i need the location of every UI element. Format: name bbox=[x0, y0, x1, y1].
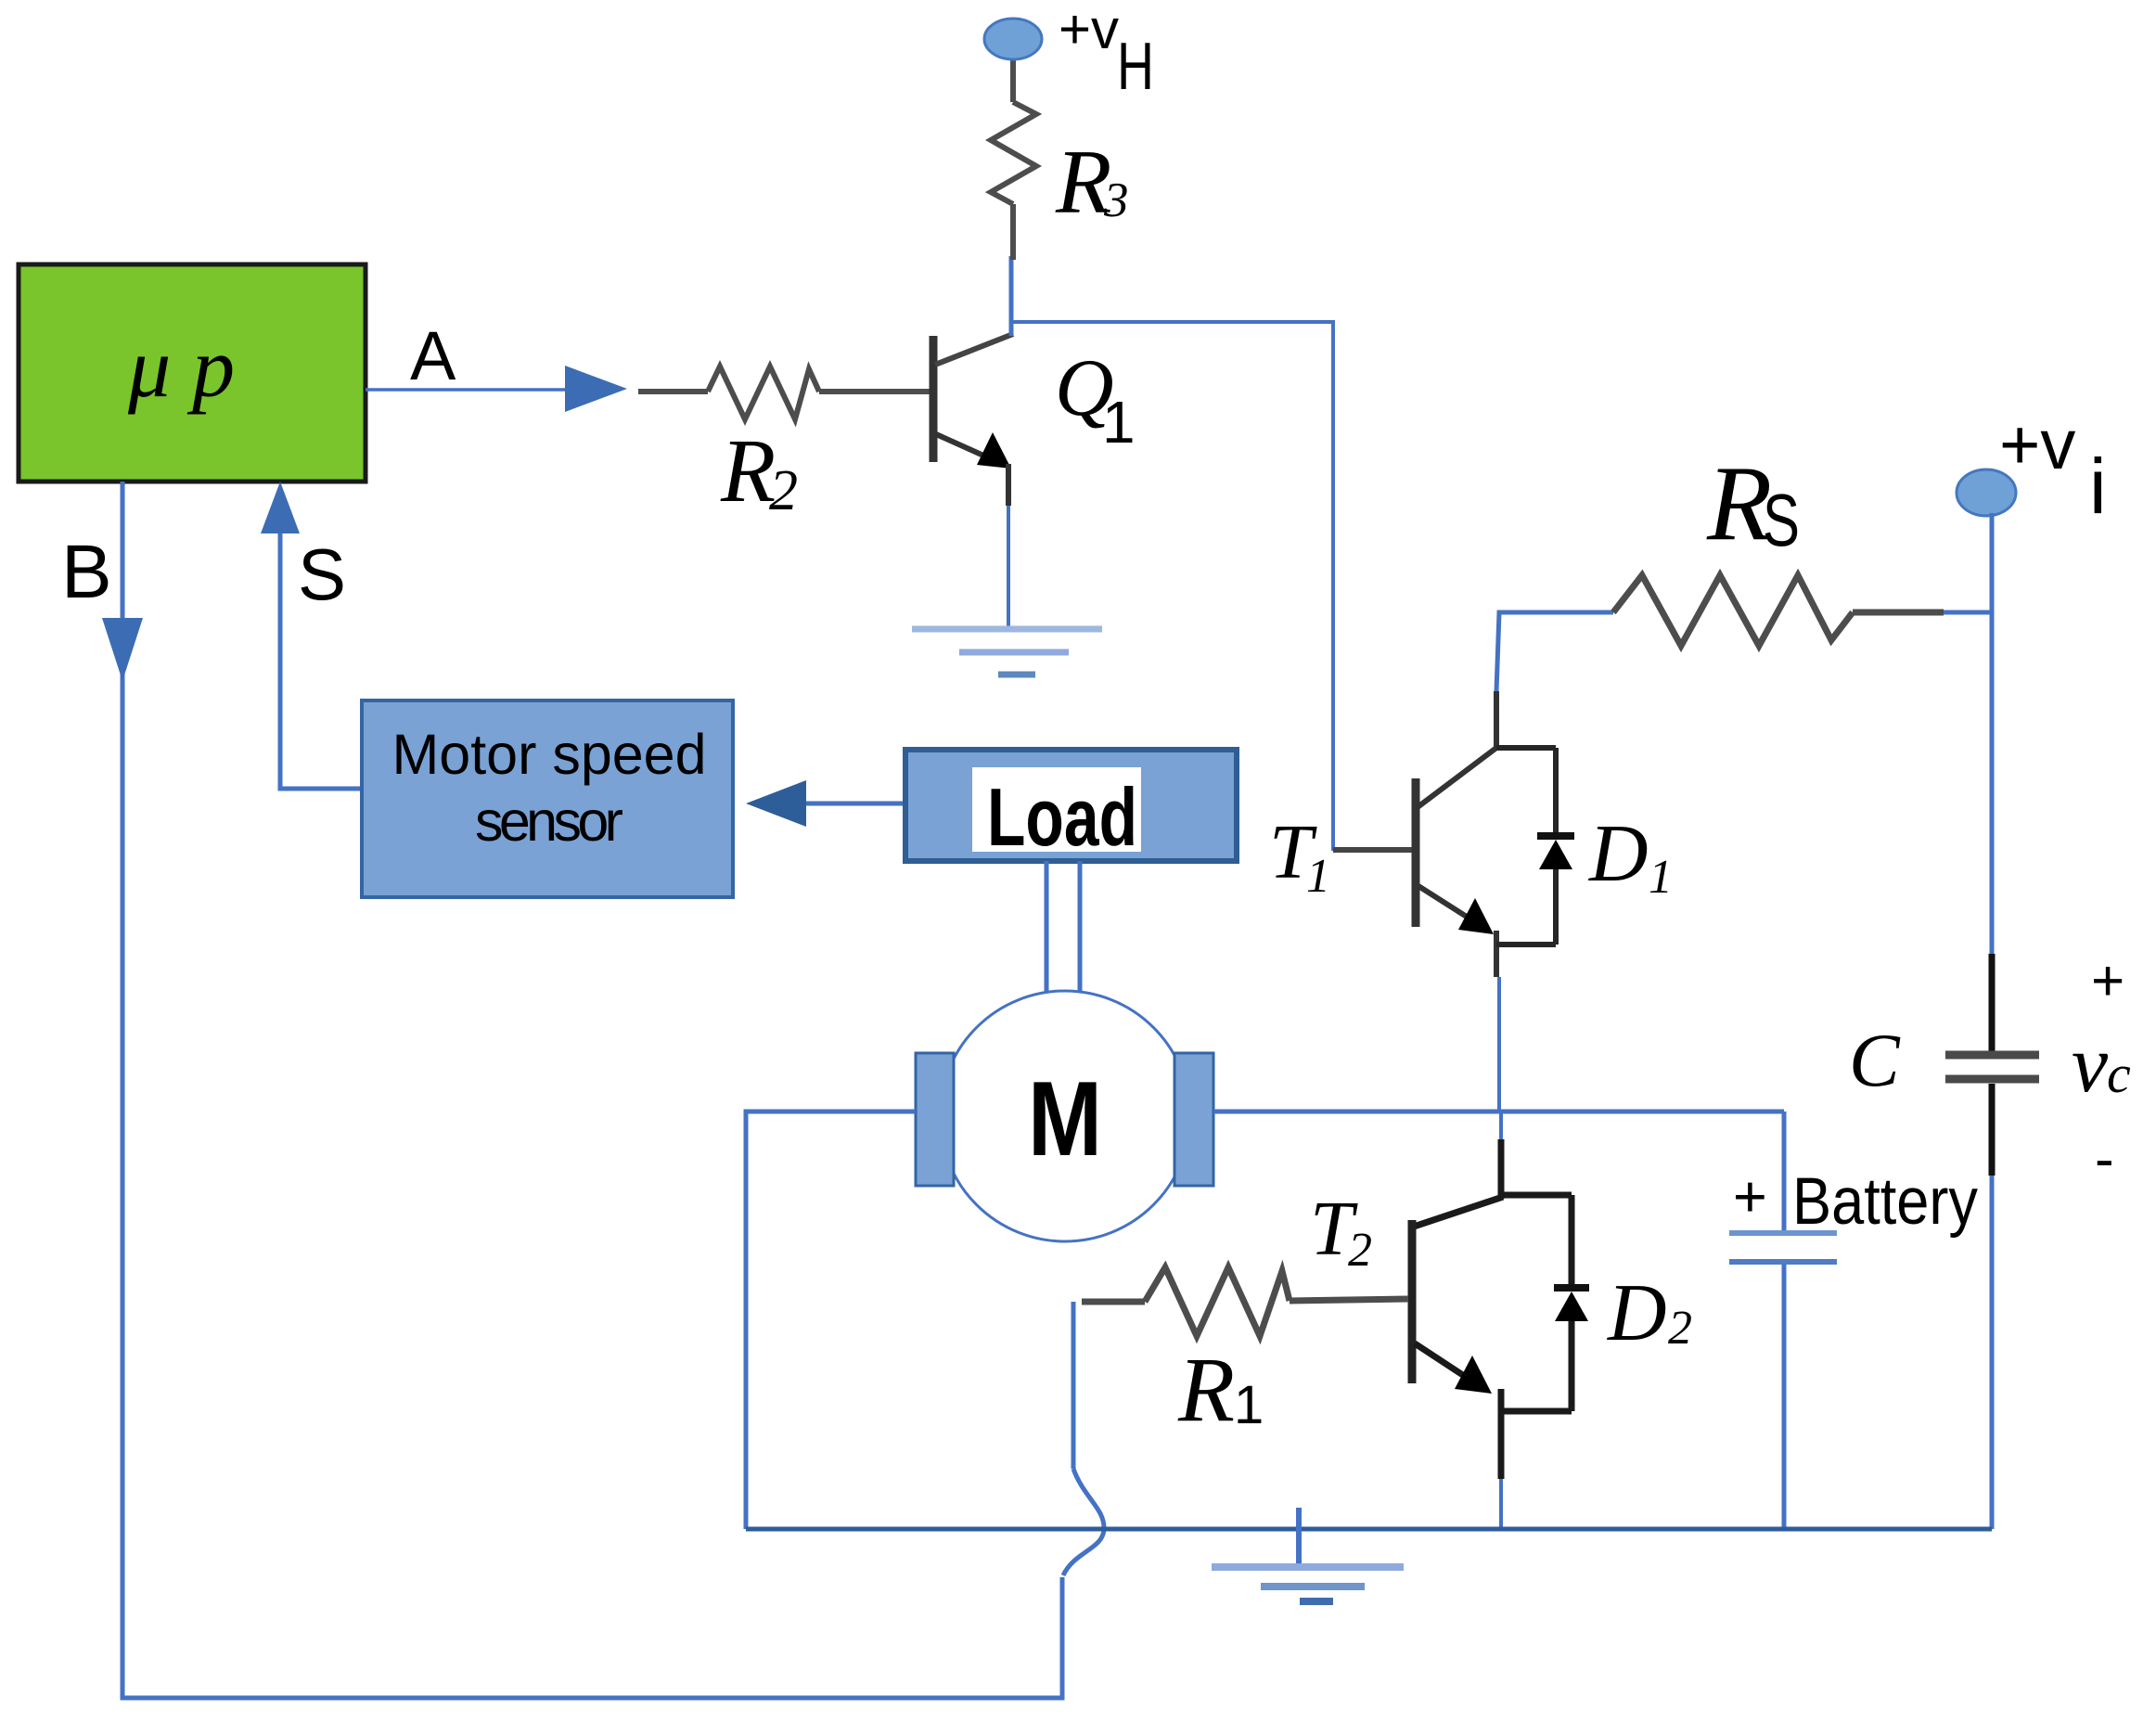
svg-text:D: D bbox=[1607, 1268, 1667, 1358]
svg-text:2: 2 bbox=[1668, 1302, 1692, 1355]
wire R1 to B wire (crossing hop) bbox=[1063, 1302, 1104, 1575]
svg-text:i: i bbox=[2089, 443, 2107, 530]
ground (bottom) bbox=[1212, 1567, 1404, 1601]
box motor speed sensor bbox=[362, 700, 733, 897]
label R3 bbox=[1055, 132, 1129, 233]
wire Q1 collector to R3 bbox=[1009, 256, 1014, 336]
transistor Q1 bbox=[933, 334, 1013, 506]
svg-text:μ p: μ p bbox=[127, 320, 235, 415]
svg-text:+: + bbox=[1733, 1164, 1767, 1229]
label Q1 bbox=[1055, 343, 1136, 456]
svg-text:A: A bbox=[410, 317, 456, 394]
arrowhead B bbox=[102, 618, 143, 681]
svg-text:Battery: Battery bbox=[1792, 1165, 1978, 1239]
wire T1 emitter down to motor bus bbox=[1497, 977, 1501, 1112]
svg-text:S: S bbox=[1763, 479, 1800, 561]
wire capacitor to bottom bus bbox=[1990, 1176, 1995, 1529]
svg-text:sensor: sensor bbox=[475, 790, 623, 853]
wire T1 collector to RS bbox=[1496, 612, 1613, 691]
ground (Q1 emitter) bbox=[912, 629, 1102, 675]
motor M bbox=[940, 991, 1190, 1241]
resistor R3 bbox=[991, 58, 1036, 260]
wire motor right to battery bbox=[1213, 1110, 1784, 1114]
svg-text:C: C bbox=[1849, 1018, 1901, 1102]
wire Q1 collector to T1 base bbox=[1011, 322, 1333, 851]
box Load bbox=[905, 750, 1237, 863]
resistor RS bbox=[1613, 575, 1944, 646]
label T1 bbox=[1269, 809, 1330, 903]
svg-text:v: v bbox=[2072, 1020, 2109, 1110]
svg-text:1: 1 bbox=[1234, 1375, 1264, 1435]
wire bus to bottom ground bbox=[1296, 1508, 1302, 1567]
wire motor left to bottom bus bbox=[746, 1112, 916, 1529]
svg-text:R: R bbox=[720, 421, 776, 520]
resistor R2 bbox=[638, 366, 931, 419]
battery BT1 bbox=[1729, 1233, 1837, 1262]
label RS bbox=[1706, 444, 1800, 562]
diode D2 bbox=[1501, 1195, 1589, 1411]
svg-text:3: 3 bbox=[1103, 173, 1129, 227]
svg-text:M: M bbox=[1028, 1060, 1102, 1178]
wire RS to +vi node bbox=[1944, 610, 1992, 615]
svg-text:S: S bbox=[298, 533, 346, 615]
label T2 bbox=[1310, 1186, 1372, 1277]
supply node +vi bbox=[1957, 469, 2016, 516]
wire S (sensor to μp) bbox=[280, 520, 362, 789]
arrow Load to sensor bbox=[746, 780, 904, 827]
wire Q1 emitter to ground bbox=[1007, 506, 1010, 629]
wire motor bus down to battery + bbox=[1782, 1112, 1787, 1230]
label +vi bbox=[1999, 405, 2107, 530]
resistor R1 bbox=[1082, 1267, 1408, 1336]
label vc bbox=[2072, 1020, 2131, 1110]
label R2 bbox=[720, 421, 798, 522]
svg-text:1: 1 bbox=[1649, 851, 1673, 904]
svg-text:-: - bbox=[2095, 1127, 2114, 1191]
svg-text:Motor speed: Motor speed bbox=[391, 723, 706, 786]
label Battery bbox=[1733, 1164, 1978, 1239]
motor shaft bbox=[1046, 861, 1080, 997]
arrowhead A bbox=[565, 366, 627, 412]
svg-text:1: 1 bbox=[1102, 389, 1136, 456]
transistor T2 bbox=[1412, 1112, 1503, 1529]
svg-text:Load: Load bbox=[987, 771, 1137, 863]
svg-text:2: 2 bbox=[1348, 1224, 1372, 1277]
supply node +vH bbox=[984, 19, 1042, 59]
arrowhead S bbox=[261, 482, 300, 533]
label D2 bbox=[1607, 1268, 1692, 1358]
svg-text:2: 2 bbox=[769, 459, 798, 522]
svg-text:1: 1 bbox=[1306, 850, 1330, 903]
motor brush right bbox=[1174, 1053, 1213, 1186]
svg-text:+: + bbox=[2091, 949, 2124, 1013]
svg-text:c: c bbox=[2107, 1044, 2131, 1104]
wire A (μp output to R2) bbox=[366, 388, 568, 392]
wire B (μp to bottom bus) bbox=[122, 482, 1062, 1698]
motor brush left bbox=[916, 1053, 954, 1186]
label D1 bbox=[1588, 809, 1673, 904]
wire +vi down to capacitor bbox=[1990, 513, 1995, 954]
microprocessor box U1 (μp) bbox=[19, 264, 366, 482]
svg-text:D: D bbox=[1588, 809, 1649, 899]
wire battery - to bottom bus bbox=[1782, 1265, 1787, 1529]
svg-text:B: B bbox=[61, 530, 112, 614]
bottom bus wire (ground bus) bbox=[746, 1527, 1992, 1532]
label +vH bbox=[1059, 0, 1154, 104]
label R1 bbox=[1177, 1338, 1264, 1441]
svg-text:+v: +v bbox=[1999, 405, 2075, 484]
svg-text:R: R bbox=[1177, 1338, 1235, 1441]
svg-text:H: H bbox=[1117, 30, 1154, 104]
capacitor C bbox=[1945, 954, 2039, 1176]
diode D1 bbox=[1496, 748, 1574, 945]
transistor T1 bbox=[1333, 691, 1496, 977]
svg-text:+v: +v bbox=[1059, 0, 1119, 60]
